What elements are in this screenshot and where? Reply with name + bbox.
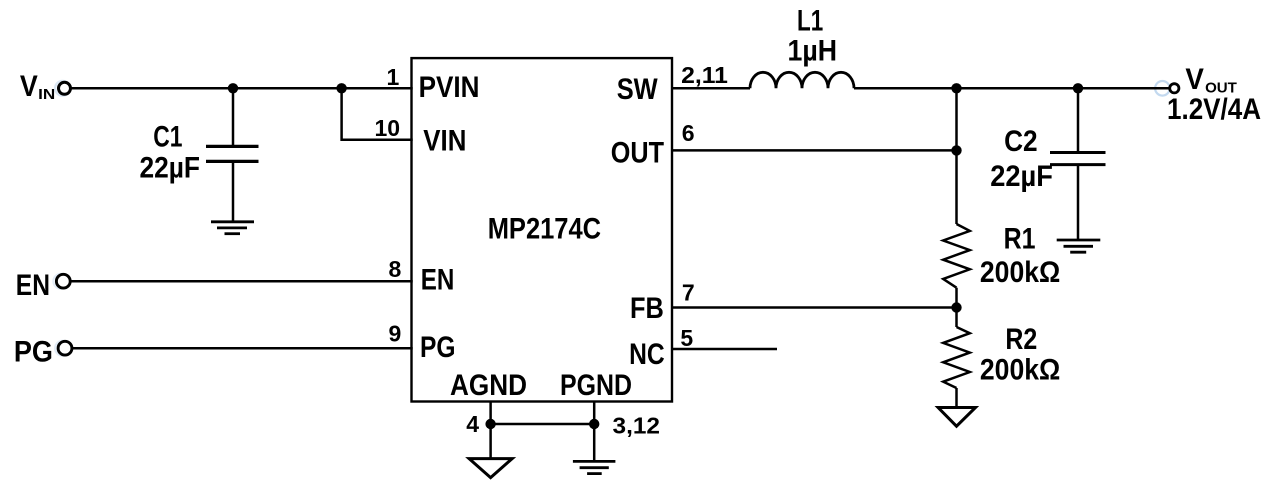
resistor R1 [943, 224, 970, 288]
node EN terminal highlight [53, 274, 68, 289]
svg-text:4: 4 [466, 411, 479, 437]
svg-text:R1: R1 [1004, 222, 1036, 255]
wire VIN branch to pin 10 [342, 88, 413, 140]
svg-text:FB: FB [630, 292, 664, 325]
svg-text:PG: PG [14, 336, 53, 369]
svg-text:EN: EN [421, 264, 455, 297]
ground for PGND (earth ground) [573, 461, 616, 473]
node PG terminal circle [58, 341, 72, 355]
svg-text:VIN: VIN [423, 125, 466, 158]
svg-text:3,12: 3,12 [613, 413, 661, 439]
junction OUT divider [951, 145, 961, 155]
wire VIN rail to PVIN pin 1 [71, 87, 413, 90]
svg-text:PVIN: PVIN [419, 71, 480, 104]
svg-text:8: 8 [389, 256, 402, 282]
svg-text:NC: NC [629, 338, 665, 371]
resistor R2 [943, 327, 970, 388]
junction AGND [485, 419, 495, 429]
svg-text:6: 6 [682, 120, 695, 146]
node VIN terminal circle [59, 82, 71, 94]
junction output rail C2 tap [1073, 83, 1083, 93]
svg-text:IN: IN [38, 86, 55, 103]
svg-text:10: 10 [375, 115, 401, 141]
svg-text:2,11: 2,11 [681, 62, 728, 88]
wire FB pin to divider midpoint [671, 306, 957, 309]
node VOUT terminal circle [1170, 84, 1179, 93]
svg-text:L1: L1 [797, 5, 823, 38]
svg-text:R2: R2 [1005, 323, 1037, 356]
capacitor C2 bottom lead [1077, 165, 1080, 240]
svg-text:7: 7 [682, 279, 695, 305]
wire SW pin to inductor [671, 87, 750, 90]
junction VIN branch [336, 83, 346, 93]
capacitor C2 plates [1050, 153, 1106, 165]
svg-text:C2: C2 [1004, 125, 1038, 158]
junction PGND [589, 419, 599, 429]
ground for R2 (signal ground triangle) [938, 408, 975, 427]
svg-text:AGND: AGND [450, 369, 527, 402]
wire EN to pin 8 [71, 280, 413, 283]
ground for C1 [211, 222, 254, 234]
wire AGND to PGND link [491, 423, 595, 426]
op-amp U1 MP2174C IC body [412, 58, 673, 401]
svg-text:22µF: 22µF [140, 152, 201, 185]
wire divider vertical top [955, 88, 958, 224]
node EN terminal circle [56, 274, 70, 288]
svg-text:22µF: 22µF [990, 160, 1053, 193]
wire PG to pin 9 [73, 347, 413, 350]
svg-text:200kΩ: 200kΩ [980, 353, 1060, 386]
node PG terminal highlight [55, 341, 70, 356]
wire OUT pin to divider [671, 149, 957, 152]
junction FB node [951, 302, 961, 312]
svg-text:9: 9 [389, 320, 402, 346]
svg-text:PG: PG [420, 331, 456, 364]
svg-text:C1: C1 [153, 120, 182, 153]
svg-text:200kΩ: 200kΩ [980, 256, 1060, 289]
svg-text:SW: SW [617, 73, 659, 106]
svg-text:PGND: PGND [560, 369, 632, 402]
wire R2 to ground [955, 388, 958, 407]
node VOUT terminal highlight [1155, 81, 1170, 96]
svg-text:MP2174C: MP2174C [488, 213, 601, 246]
capacitor C2 top lead [1077, 88, 1080, 152]
svg-text:V: V [1185, 63, 1204, 96]
capacitor C1 plates [206, 146, 259, 161]
svg-text:1: 1 [387, 64, 400, 90]
junction output rail R divider tap [951, 83, 961, 93]
ground for C2 [1057, 240, 1101, 252]
junction C1 tap [228, 83, 238, 93]
capacitor C1 top lead [232, 88, 235, 146]
ground for AGND (signal ground triangle) [469, 459, 512, 478]
svg-text:V: V [20, 70, 38, 103]
inductor L1 [750, 72, 854, 88]
wire NC stub [671, 348, 777, 351]
capacitor C1 bottom lead [232, 161, 235, 221]
wire R1 to FB node [955, 288, 958, 327]
svg-text:EN: EN [16, 269, 50, 302]
svg-text:1.2V/4A: 1.2V/4A [1167, 93, 1261, 126]
node VIN terminal highlight [55, 81, 70, 96]
svg-text:OUT: OUT [611, 137, 664, 170]
svg-text:5: 5 [680, 325, 693, 351]
wire AGND pin lead [489, 402, 492, 459]
wire inductor to VOUT terminal [854, 87, 1170, 90]
wire PGND pin lead [593, 402, 596, 462]
svg-text:1µH: 1µH [788, 35, 838, 68]
